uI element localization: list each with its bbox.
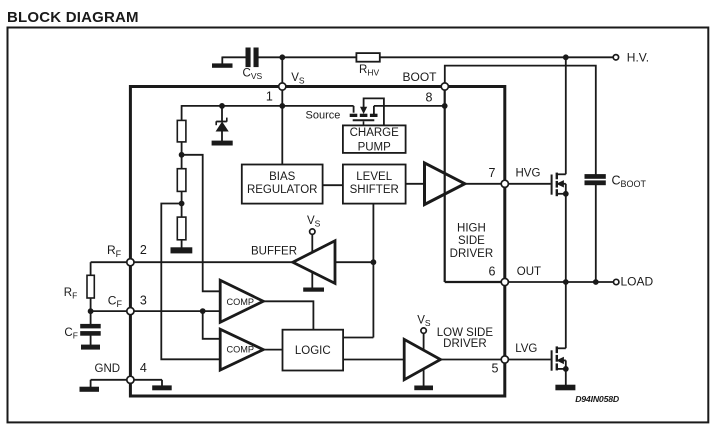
svg-text:2: 2 — [140, 243, 147, 257]
svg-text:REGULATOR: REGULATOR — [247, 184, 318, 196]
svg-text:GND: GND — [95, 363, 121, 375]
svg-text:CHARGE: CHARGE — [350, 127, 400, 139]
svg-text:SIDE: SIDE — [458, 235, 485, 247]
svg-text:LOGIC: LOGIC — [295, 345, 331, 357]
svg-text:BOOT: BOOT — [403, 70, 438, 84]
svg-text:PUMP: PUMP — [358, 142, 392, 154]
svg-text:8: 8 — [426, 91, 433, 105]
svg-text:CF: CF — [108, 293, 123, 309]
svg-text:HIGH: HIGH — [457, 223, 486, 235]
svg-text:OUT: OUT — [517, 266, 541, 278]
svg-text:6: 6 — [488, 264, 495, 278]
svg-text:DRIVER: DRIVER — [443, 338, 486, 350]
svg-text:CVS: CVS — [243, 68, 263, 81]
svg-text:BLOCK DIAGRAM: BLOCK DIAGRAM — [7, 9, 139, 26]
svg-text:CBOOT: CBOOT — [612, 174, 647, 189]
svg-text:5: 5 — [491, 362, 498, 376]
svg-text:BIAS: BIAS — [269, 171, 296, 183]
svg-text:H.V.: H.V. — [627, 51, 649, 65]
svg-text:LOAD: LOAD — [621, 274, 654, 288]
svg-text:CF: CF — [64, 327, 78, 341]
svg-text:LVG: LVG — [515, 343, 537, 355]
svg-text:RF: RF — [64, 287, 78, 301]
svg-text:VS: VS — [291, 72, 305, 86]
svg-text:SHIFTER: SHIFTER — [350, 184, 399, 196]
svg-text:COMP: COMP — [227, 297, 255, 307]
svg-text:Source: Source — [306, 110, 341, 122]
svg-text:3: 3 — [140, 293, 147, 307]
svg-text:HVG: HVG — [516, 168, 541, 180]
svg-text:RF: RF — [107, 243, 122, 259]
svg-text:4: 4 — [140, 361, 147, 375]
svg-text:D94IN058D: D94IN058D — [575, 394, 620, 404]
svg-text:DRIVER: DRIVER — [450, 248, 493, 260]
svg-text:7: 7 — [488, 166, 495, 180]
svg-text:COMP: COMP — [227, 345, 255, 355]
svg-text:BUFFER: BUFFER — [251, 245, 297, 257]
svg-text:VS: VS — [417, 315, 431, 329]
svg-text:VS: VS — [307, 215, 321, 229]
svg-text:RHV: RHV — [359, 64, 379, 77]
svg-text:1: 1 — [266, 90, 273, 104]
svg-text:LEVEL: LEVEL — [356, 171, 392, 183]
